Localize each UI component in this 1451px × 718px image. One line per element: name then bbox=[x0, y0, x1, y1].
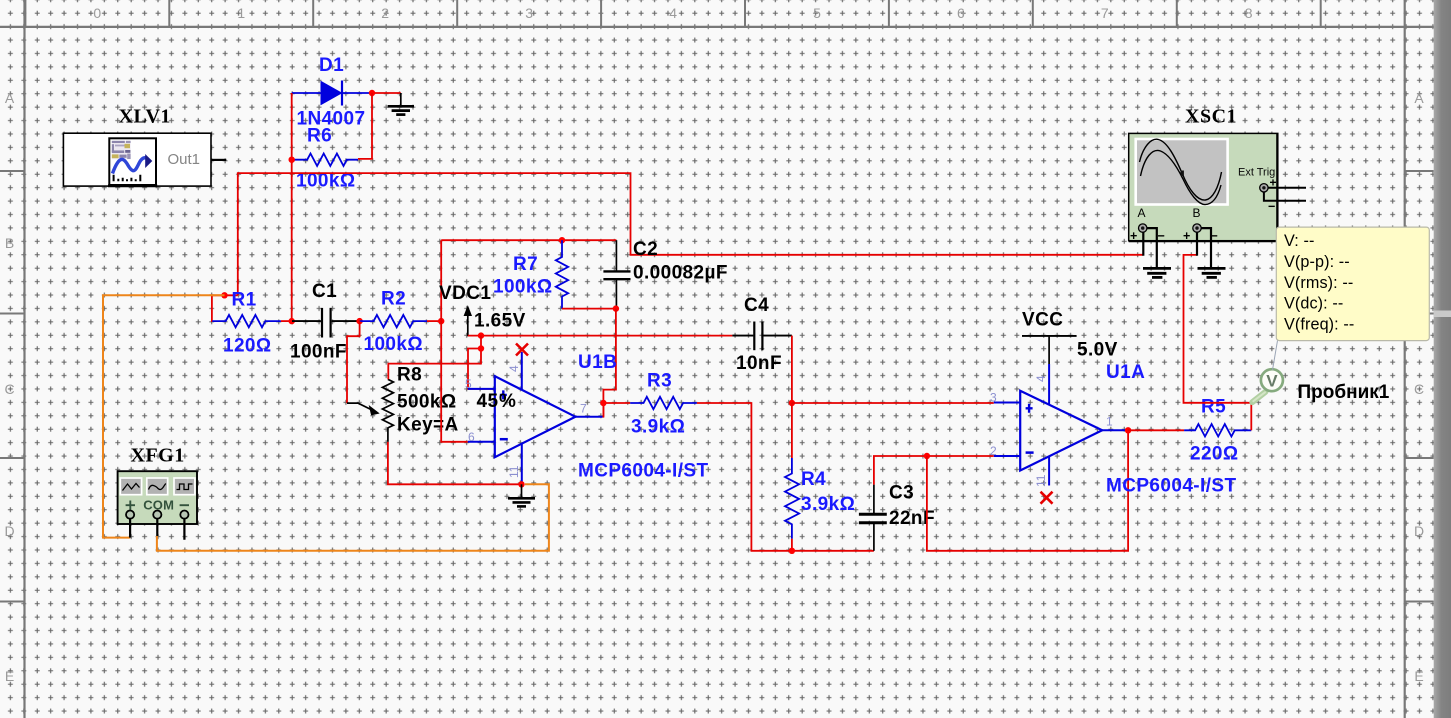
svg-text:500kΩ: 500kΩ bbox=[397, 392, 457, 413]
svg-text:100nF: 100nF bbox=[290, 342, 347, 363]
VCC power symbol bbox=[1022, 336, 1077, 364]
XSC1 Ext Trig terminal bbox=[1260, 176, 1306, 214]
wire: mid rail to non-inverting branch bbox=[468, 336, 495, 389]
capacitor C4 bbox=[732, 322, 792, 351]
svg-text:XFG1: XFG1 bbox=[131, 445, 185, 467]
junction dot R4 bottom bbox=[789, 548, 795, 554]
resistor R6 bbox=[294, 154, 358, 166]
junction dot mid rail bbox=[478, 332, 484, 338]
svg-text:+: + bbox=[1183, 229, 1190, 243]
tooltip text lines bbox=[1284, 232, 1354, 334]
svg-text:A: A bbox=[1138, 206, 1146, 220]
sheet border: ruler tick marks bbox=[25, 0, 1320, 27]
junction dot R1/C1 bbox=[289, 318, 295, 324]
svg-text:3: 3 bbox=[525, 5, 533, 21]
op-amp U1A bbox=[994, 364, 1126, 486]
junction dot D1 cathode bbox=[369, 90, 375, 96]
wire: D1 cathode to ground node bbox=[371, 92, 401, 94]
wire: R4 node to U1A non-inverting input bbox=[792, 403, 994, 458]
svg-text:MCP6004-I/ST: MCP6004-I/ST bbox=[1106, 476, 1236, 497]
svg-text:V(dc): --: V(dc): -- bbox=[1284, 295, 1343, 313]
wire: U1A output to R5 bbox=[1128, 429, 1184, 431]
svg-text:2: 2 bbox=[381, 5, 389, 21]
wire: long feed to scope channel A bbox=[238, 173, 1144, 295]
wire: R8 top lead red bbox=[388, 349, 481, 380]
junction dot R7 top bbox=[559, 237, 565, 243]
svg-text:Out1: Out1 bbox=[168, 151, 201, 168]
XSC1 B+ stub bbox=[1196, 232, 1198, 255]
svg-text:8: 8 bbox=[1245, 5, 1253, 21]
svg-text:120Ω: 120Ω bbox=[223, 336, 272, 357]
svg-text:E: E bbox=[1414, 668, 1423, 684]
svg-text:4: 4 bbox=[669, 5, 677, 21]
wire: R1 right to node bbox=[281, 320, 292, 322]
wire: orange XFG1 COM return bbox=[157, 484, 549, 550]
probe handle bbox=[1252, 392, 1265, 402]
sheet border: right row dividers bbox=[1405, 171, 1434, 602]
svg-text:R4: R4 bbox=[801, 469, 826, 490]
XFG1 terminal stubs bbox=[130, 519, 184, 540]
svg-text:100kΩ: 100kΩ bbox=[493, 277, 553, 298]
resistor R4 bbox=[785, 458, 799, 539]
ERC marker X at U1A pin 11 bbox=[1041, 492, 1053, 504]
junction dot U1B pin11 ground bbox=[518, 481, 524, 487]
resistor R2 bbox=[360, 315, 427, 327]
wire: R5 right to probe node and scope B bbox=[1184, 255, 1252, 430]
capacitor C3 bbox=[859, 485, 887, 551]
wire: top feedback node horizontal bbox=[441, 239, 616, 241]
wire: R3 right down to bottom rail bbox=[697, 403, 874, 551]
svg-text:V: --: V: -- bbox=[1284, 232, 1314, 250]
svg-text:A: A bbox=[1414, 90, 1424, 106]
svg-text:%: % bbox=[499, 391, 516, 412]
wire: C1-R2 node down to pot wiper bbox=[347, 321, 360, 403]
svg-text:C: C bbox=[4, 381, 14, 397]
svg-text:MCP6004-I/ST: MCP6004-I/ST bbox=[578, 461, 708, 482]
sheet border: ruler numbers bbox=[93, 5, 1252, 21]
svg-text:4: 4 bbox=[1034, 375, 1048, 382]
junction dot C2/R7 bottom bbox=[613, 305, 619, 311]
instrument XLV1 box bbox=[63, 133, 211, 186]
svg-text:11: 11 bbox=[507, 465, 521, 478]
wire: U1B output node bbox=[603, 403, 631, 417]
svg-text:D1: D1 bbox=[319, 55, 344, 76]
wire: C2/R7 node down to U1B output bbox=[603, 309, 616, 417]
svg-text:−: − bbox=[1268, 200, 1275, 214]
instrument XSC1 oscilloscope box bbox=[1129, 133, 1279, 241]
svg-text:5: 5 bbox=[465, 377, 472, 391]
wire: D1 cathode down to R6 right bbox=[358, 93, 372, 159]
resistor R1 bbox=[212, 315, 281, 327]
op-amp U1B bbox=[468, 352, 603, 484]
probe Пробник1 voltage probe circle bbox=[1261, 369, 1283, 391]
svg-text:R8: R8 bbox=[397, 365, 422, 386]
svg-text:220Ω: 220Ω bbox=[1190, 444, 1239, 465]
probe tooltip box bbox=[1276, 227, 1429, 341]
sheet border: top ruler line bbox=[0, 26, 1435, 28]
svg-text:22nF: 22nF bbox=[889, 508, 935, 529]
potentiometer R8 body bbox=[382, 379, 393, 442]
wire: C3 top to U1A inverting input bbox=[874, 456, 994, 485]
VDC1 arrow symbol bbox=[464, 307, 471, 337]
junction dot R6 left bbox=[289, 157, 295, 163]
svg-text:R2: R2 bbox=[381, 289, 406, 310]
svg-text:11: 11 bbox=[1034, 474, 1048, 487]
ground symbol near D1 bbox=[388, 93, 414, 115]
resistor R5 bbox=[1184, 424, 1251, 436]
svg-text:+: + bbox=[1130, 229, 1137, 243]
wire: C4 right down to R4 top node bbox=[791, 336, 793, 403]
capacitor C1 bbox=[292, 308, 359, 338]
svg-text:D: D bbox=[4, 523, 14, 539]
junction dot U1B output bbox=[600, 400, 606, 406]
svg-text:7: 7 bbox=[580, 402, 587, 416]
sheet border: right column line bbox=[1404, 0, 1406, 718]
junction dot C3/U1A feedback bbox=[924, 453, 930, 459]
svg-text:U1B: U1B bbox=[578, 352, 617, 373]
svg-text:3.9kΩ: 3.9kΩ bbox=[801, 494, 855, 515]
wire: D1 anode lead (blue) bbox=[292, 92, 321, 94]
sheet border: left row letters bbox=[4, 90, 14, 684]
XSC1 B- stub to ground bbox=[1201, 228, 1211, 268]
svg-text:5: 5 bbox=[813, 5, 821, 21]
svg-text:XSC1: XSC1 bbox=[1185, 106, 1237, 128]
junction dot U1A output bbox=[1125, 427, 1131, 433]
wire: XLV1 Out1 stub bbox=[211, 159, 226, 161]
diode D1 bbox=[321, 81, 342, 106]
wire: node to R1 left elbow bbox=[212, 295, 238, 321]
svg-text:Key=A: Key=A bbox=[397, 415, 459, 436]
svg-text:B: B bbox=[1193, 206, 1201, 220]
svg-text:2: 2 bbox=[990, 444, 997, 458]
wire: feedback from U1A output bottom run bbox=[927, 430, 1128, 551]
instrument XFG1 box bbox=[118, 471, 197, 524]
svg-text:U1A: U1A bbox=[1106, 362, 1145, 383]
XSC1 channel B terminal bbox=[1183, 206, 1218, 243]
svg-text:E: E bbox=[5, 668, 14, 684]
svg-text:C2: C2 bbox=[633, 239, 658, 260]
svg-text:C: C bbox=[1414, 381, 1424, 397]
svg-text:4: 4 bbox=[507, 365, 521, 372]
XSC1 channel A terminal bbox=[1130, 206, 1165, 243]
XLV1 icon thumbnail bbox=[112, 141, 153, 182]
svg-text:R1: R1 bbox=[232, 290, 257, 311]
svg-text:Пробник1: Пробник1 bbox=[1298, 382, 1390, 403]
svg-text:1: 1 bbox=[1106, 415, 1113, 429]
resistor R3 bbox=[630, 397, 697, 409]
potentiometer R8 wiper arrow bbox=[347, 403, 379, 415]
svg-text:45: 45 bbox=[477, 391, 499, 412]
wire: R7 bottom to C2 bottom node bbox=[562, 308, 616, 310]
wire: R4 bottom bbox=[791, 539, 793, 551]
ground symbol scope B bbox=[1198, 268, 1226, 277]
svg-text:V(p-p): --: V(p-p): -- bbox=[1284, 253, 1350, 271]
svg-text:7: 7 bbox=[1101, 5, 1109, 21]
XSC1 A- stub to ground bbox=[1147, 228, 1157, 268]
wire: main mid rail VDC1 to C4 bbox=[468, 335, 733, 337]
svg-text:1.65V: 1.65V bbox=[474, 311, 526, 332]
svg-text:V(freq): --: V(freq): -- bbox=[1284, 316, 1354, 334]
wire: R8 bottom to analog ground bbox=[388, 442, 522, 484]
svg-text:VCC: VCC bbox=[1022, 310, 1063, 331]
XFG1 terminal labels bbox=[126, 498, 189, 513]
ERC marker X at U1B pin 4 bbox=[516, 344, 528, 356]
svg-text:6: 6 bbox=[468, 430, 475, 444]
svg-text:D: D bbox=[1414, 523, 1424, 539]
tooltip connector line bbox=[1273, 341, 1278, 370]
svg-text:6: 6 bbox=[957, 5, 965, 21]
ground symbol below U1B bbox=[508, 484, 535, 506]
svg-text:C4: C4 bbox=[744, 295, 769, 316]
svg-text:R6: R6 bbox=[307, 126, 332, 147]
junction dot branch bbox=[478, 345, 484, 351]
svg-text:R7: R7 bbox=[513, 254, 538, 275]
junction dot R4 top bbox=[789, 400, 795, 406]
scrollbar notch on dark band bbox=[1434, 311, 1451, 318]
svg-text:V(rms): --: V(rms): -- bbox=[1284, 274, 1353, 292]
workspace dark band right edge bbox=[1434, 0, 1451, 718]
wire: R2 right to feedback vertical bbox=[427, 320, 441, 322]
svg-text:0.00082µF: 0.00082µF bbox=[633, 263, 728, 284]
svg-text:R3: R3 bbox=[647, 371, 672, 392]
ground symbol scope A bbox=[1143, 268, 1171, 277]
svg-text:−: − bbox=[1158, 229, 1165, 243]
svg-text:XLV1: XLV1 bbox=[119, 106, 171, 128]
sheet border: left column line bbox=[23, 0, 25, 718]
svg-text:100kΩ: 100kΩ bbox=[364, 334, 424, 355]
svg-text:3: 3 bbox=[990, 391, 997, 405]
sheet border: left row dividers bbox=[0, 171, 25, 602]
wire: orange from XFG1 plus terminal bbox=[103, 295, 225, 537]
junction dot orange/red node bbox=[221, 292, 227, 298]
svg-text:5.0V: 5.0V bbox=[1077, 340, 1118, 361]
XSC1 A+ stub bbox=[1142, 232, 1144, 255]
wire: D1 cathode lead (blue) bbox=[342, 92, 371, 94]
svg-text:A: A bbox=[5, 90, 15, 106]
XFG1 terminals bbox=[126, 510, 188, 518]
svg-text:1: 1 bbox=[237, 5, 245, 21]
resistor R7 bbox=[556, 240, 568, 308]
junction dot R2/feedback bbox=[438, 318, 444, 324]
svg-text:R5: R5 bbox=[1201, 397, 1226, 418]
sheet border: right row letters bbox=[1414, 90, 1424, 684]
svg-text:C3: C3 bbox=[889, 483, 914, 504]
junction dot C1/R2 bbox=[356, 318, 362, 324]
svg-text:B: B bbox=[5, 235, 14, 251]
capacitor C2 bbox=[603, 240, 630, 307]
svg-text:VDC1: VDC1 bbox=[439, 283, 491, 304]
svg-text:V: V bbox=[1266, 372, 1278, 391]
svg-text:C1: C1 bbox=[312, 281, 337, 302]
wire: D1/R6 left vertical down to R1-C1 node bbox=[291, 93, 293, 321]
svg-text:3.9kΩ: 3.9kΩ bbox=[631, 417, 685, 438]
wire: feedback vertical to U1B inverting input bbox=[441, 240, 468, 442]
svg-text:0: 0 bbox=[93, 5, 101, 21]
svg-text:10nF: 10nF bbox=[736, 353, 782, 374]
